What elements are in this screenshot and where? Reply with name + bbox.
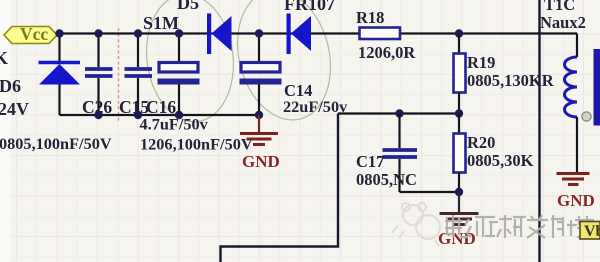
resistor R20 — [454, 114, 466, 193]
node R20 bottom junction — [455, 188, 463, 196]
node C15 top — [134, 29, 142, 37]
node C15 bottom — [134, 111, 142, 119]
svg-text:S1M: S1M — [143, 13, 179, 33]
zener diode D6 — [39, 34, 81, 116]
svg-text:0805,130KR: 0805,130KR — [467, 71, 555, 90]
power port Vb — [580, 222, 600, 241]
svg-text:1206,100nF/50V: 1206,100nF/50V — [140, 135, 253, 154]
svg-text:Vcc: Vcc — [20, 24, 48, 44]
ground GND left — [240, 115, 280, 171]
annotation green ellipse around D5 and C16 — [140, 0, 241, 127]
svg-text:R19: R19 — [467, 53, 495, 72]
diode FR107 — [287, 14, 312, 55]
node C14 bottom / GND junction — [255, 111, 263, 119]
ground GND right — [557, 174, 595, 211]
svg-text:R20: R20 — [467, 133, 495, 152]
node C16 bottom — [175, 111, 183, 119]
svg-text:Naux2: Naux2 — [540, 13, 586, 32]
svg-text:0805,100nF/50V: 0805,100nF/50V — [0, 134, 112, 153]
svg-text:24V: 24V — [0, 99, 29, 119]
node R19 bottom junction — [455, 109, 463, 117]
svg-text:R18: R18 — [356, 8, 384, 27]
svg-text:GND: GND — [242, 152, 280, 171]
annotation red dashed line — [118, 28, 120, 122]
svg-text:D6: D6 — [0, 76, 21, 96]
svg-text:22uF/50v: 22uF/50v — [283, 97, 348, 116]
power port Vcc — [4, 24, 57, 44]
wire feedback rail R19/R20 junction to C17 — [338, 112, 459, 114]
wire main top rail from Vcc to transformer — [57, 32, 577, 34]
svg-text:T1C: T1C — [544, 0, 575, 14]
wire ground rail under capacitors — [60, 114, 259, 116]
polarity dot — [582, 112, 591, 121]
ground GND center — [438, 192, 479, 248]
wire long vertical feedback run going down and left to bottom edge — [221, 114, 339, 262]
node C16 top — [175, 29, 183, 37]
watermark logo — [392, 203, 440, 246]
svg-text:K: K — [0, 48, 8, 68]
svg-text:D5: D5 — [177, 0, 199, 13]
wire C17 bottom rail — [400, 191, 460, 193]
node Vcc junction — [55, 29, 63, 37]
capacitor C16 polarized — [158, 34, 200, 116]
svg-text:1206,0R: 1206,0R — [358, 43, 416, 62]
wire long vertical net at x=539 — [538, 0, 540, 262]
transformer T1C winding Naux2 — [565, 34, 578, 173]
node C26 bottom — [94, 111, 102, 119]
node C17 top junction — [395, 109, 403, 117]
svg-text:Vb: Vb — [584, 223, 600, 240]
svg-text:0805,NC: 0805,NC — [356, 170, 417, 189]
svg-text:GND: GND — [557, 191, 595, 210]
node R18/R19 junction — [455, 29, 463, 37]
node C26 top — [94, 29, 102, 37]
annotation green ellipse around FR107 and C14 — [224, 0, 343, 130]
svg-text:0805,30K: 0805,30K — [467, 151, 534, 170]
node C14 top — [255, 29, 263, 37]
svg-text:GND: GND — [438, 229, 476, 248]
capacitor C17 — [383, 114, 418, 193]
transformer core — [594, 49, 600, 126]
capacitor C26 — [85, 34, 113, 116]
resistor R19 — [454, 34, 466, 114]
diode D5 — [207, 14, 232, 55]
watermark text — [445, 215, 594, 238]
svg-text:C17: C17 — [356, 152, 384, 171]
capacitor C14 polarized — [240, 34, 282, 116]
svg-text:FR107: FR107 — [284, 0, 335, 14]
capacitor C15 — [125, 34, 153, 116]
svg-text:4.7uF/50v: 4.7uF/50v — [140, 115, 209, 134]
resistor R18 — [360, 28, 401, 40]
